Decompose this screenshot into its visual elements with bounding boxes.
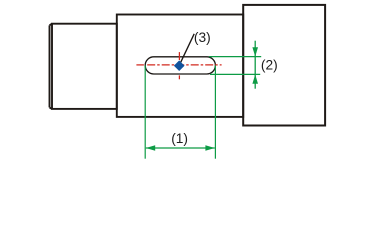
extension line bottom of dimension (2) [210,73,260,75]
arrowhead right of (1) [205,145,214,151]
svg-text:(2): (2) [261,58,278,73]
shaft end segment (left block) [50,24,117,109]
slot (obround keyway) [145,57,215,74]
dimension line (1) [146,147,215,149]
slot center point marker (blue diamond) [174,60,185,71]
leader line of label (3) [181,34,195,63]
extension line left of dimension (1) [144,65,146,158]
extension line right of dimension (1) [214,65,216,158]
dimension line (2) [254,41,256,89]
svg-text:(3): (3) [194,30,211,45]
svg-text:(1): (1) [171,131,188,146]
arrowhead top of (2) [252,47,258,56]
extension line top of dimension (2) [209,56,261,58]
middle shaft segment (block with keyway slot) [117,15,243,117]
centerline horizontal (red dash-dot) [136,64,144,66]
right large segment (flange block) [243,5,325,126]
centerline vertical through slot center (red) [178,52,180,60]
arrowhead left of (1) [146,145,155,151]
arrowhead bottom of (2) [252,74,258,83]
